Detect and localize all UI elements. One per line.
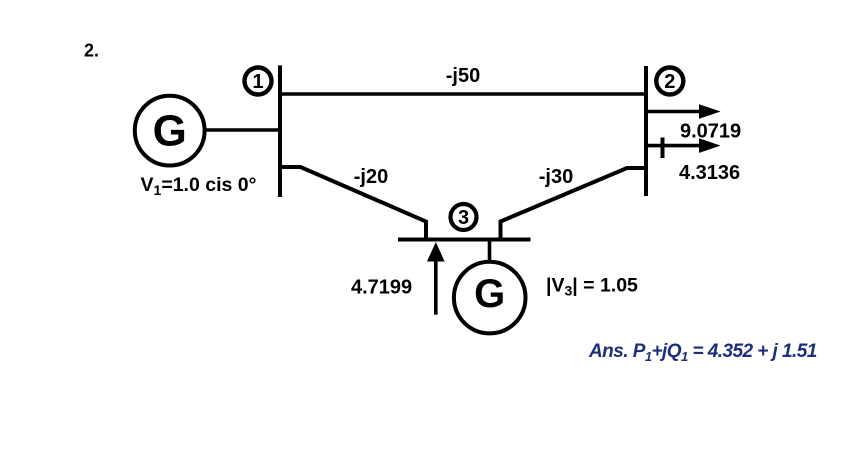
wire bus3 to G3 [488, 241, 492, 261]
svg-text:2.: 2. [84, 41, 99, 61]
svg-text:4.3136: 4.3136 [679, 162, 740, 184]
transmission line bus1 to bus2 [281, 92, 646, 96]
svg-text:G: G [474, 272, 505, 316]
generator G1 [135, 96, 205, 166]
svg-text:9.0719: 9.0719 [680, 121, 741, 143]
generator G3 [454, 262, 526, 334]
generation arrow into bus 3 [427, 242, 445, 315]
svg-text:|V3| = 1.05: |V3| = 1.05 [546, 275, 638, 299]
svg-text:1: 1 [252, 71, 263, 93]
svg-text:4.7199: 4.7199 [351, 277, 412, 299]
bus 1 bar [278, 65, 282, 197]
bus 3 bar [398, 238, 531, 242]
svg-text:3: 3 [458, 207, 469, 229]
wire G1 to bus 1 [204, 128, 281, 132]
reactive power tick on Q arrow [661, 138, 665, 159]
svg-text:G: G [153, 106, 187, 155]
node circle 3 [451, 204, 477, 230]
svg-text:Ans. P1+jQ1 = 4.352 + j 1.51: Ans. P1+jQ1 = 4.352 + j 1.51 [588, 341, 817, 364]
load arrow Q at bus 2 [647, 138, 721, 153]
svg-text:2: 2 [664, 71, 675, 93]
line bus2 to bus3 [501, 168, 647, 240]
node circle 1 [245, 68, 272, 95]
load arrow P at bus 2 [647, 104, 721, 119]
node circle 2 [656, 68, 683, 95]
svg-text:-j50: -j50 [446, 65, 480, 87]
line bus1 to bus3 [280, 167, 426, 240]
svg-text:-j30: -j30 [539, 166, 573, 188]
bus 2 bar [644, 66, 648, 196]
svg-text:-j20: -j20 [354, 166, 388, 188]
